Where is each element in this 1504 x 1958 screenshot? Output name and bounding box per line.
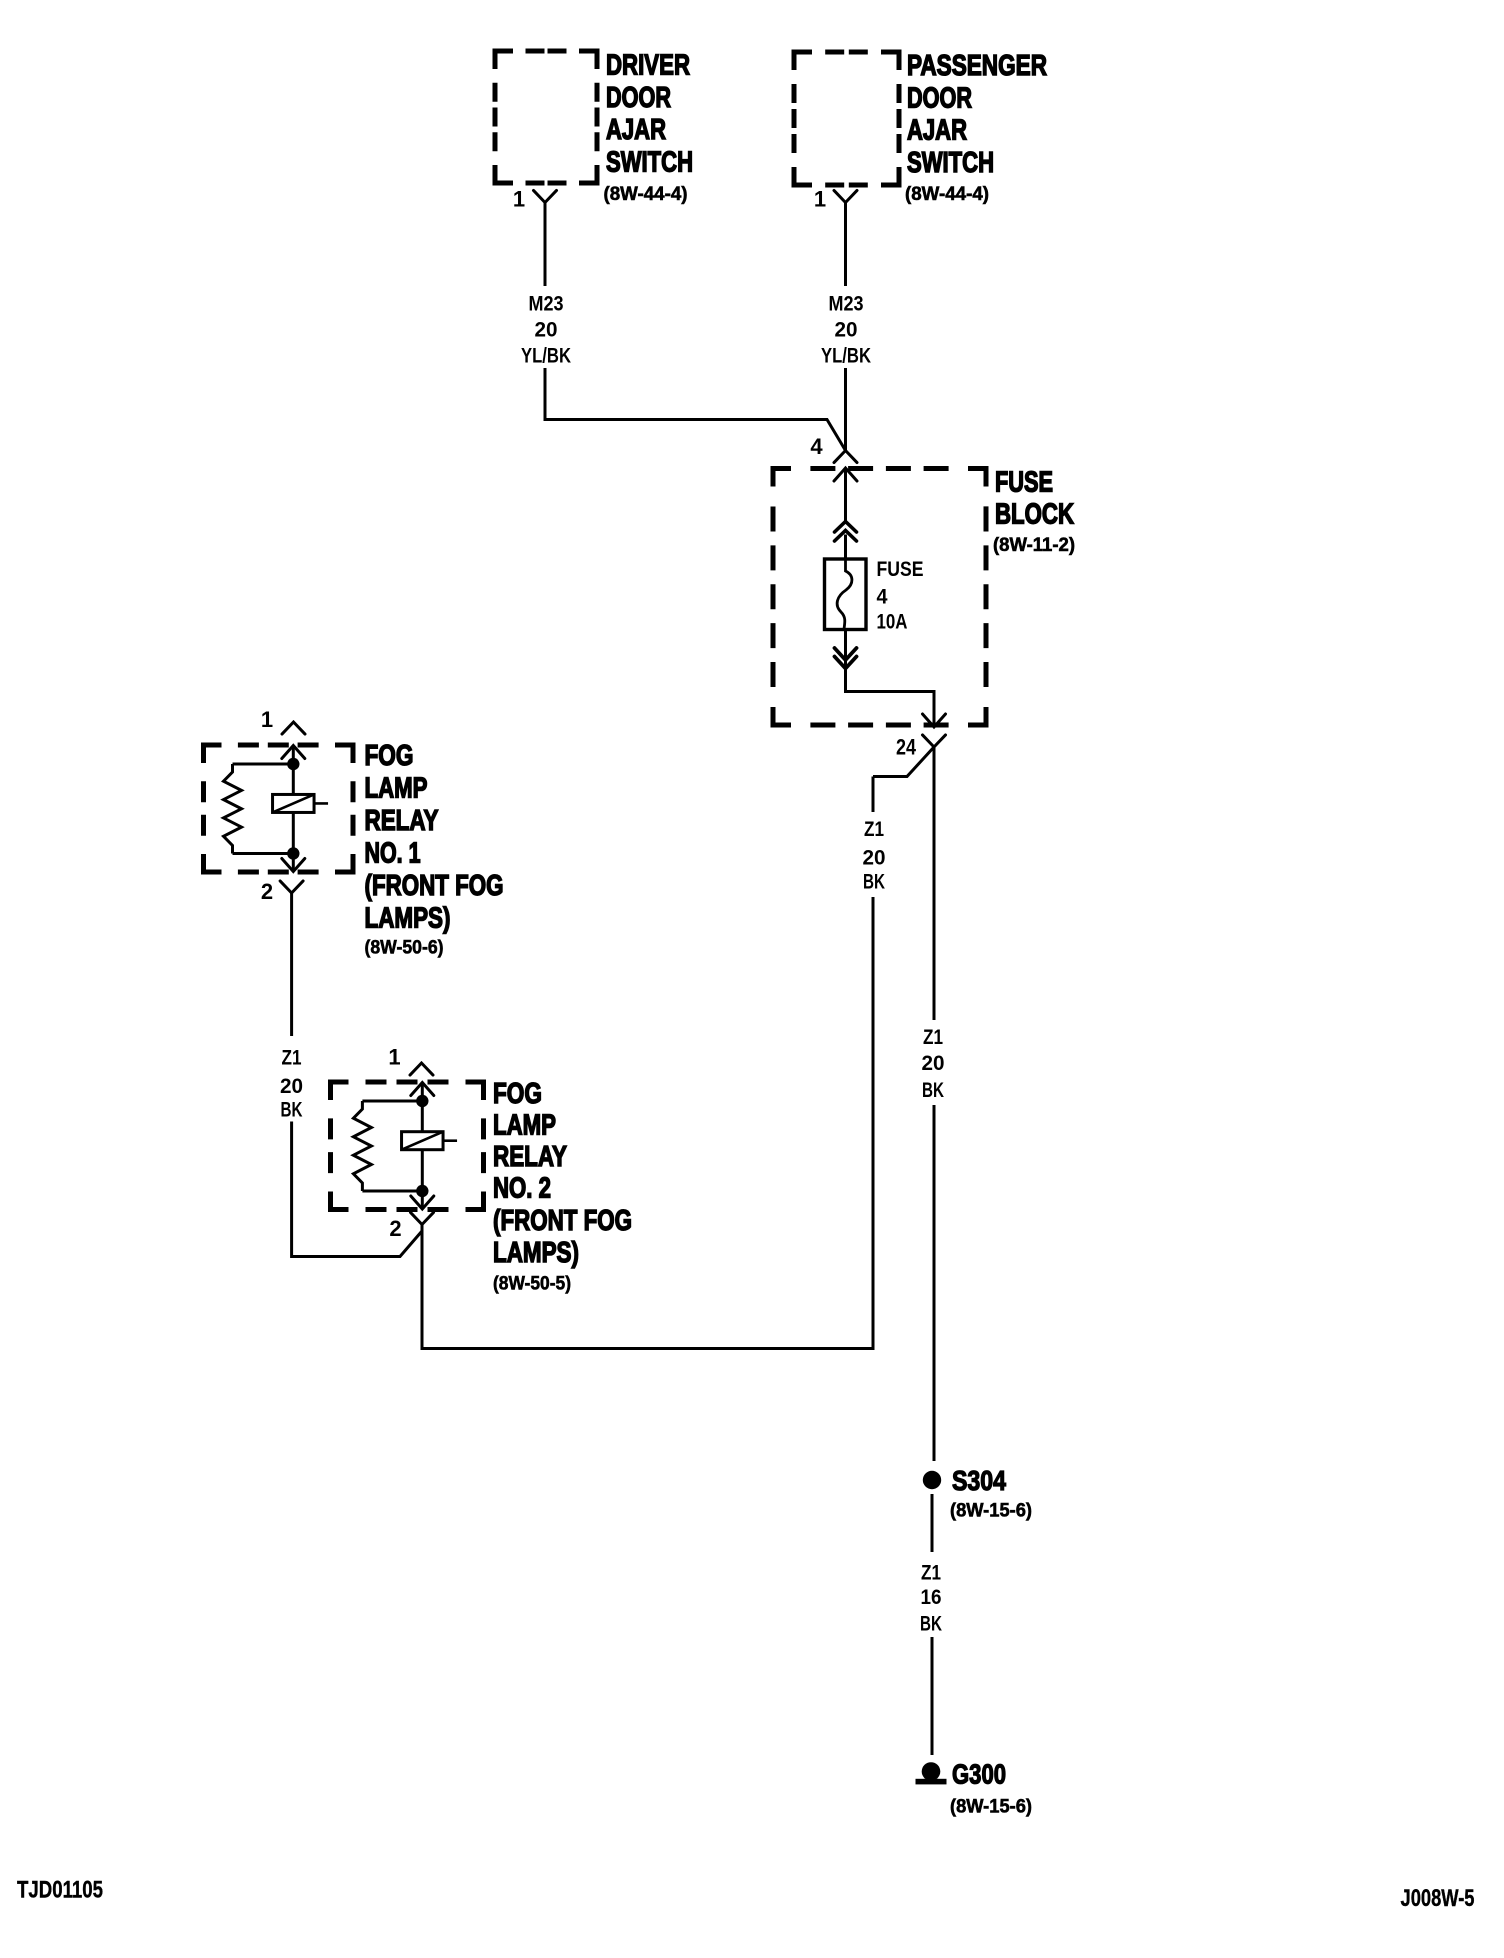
svg-text:(8W-50-5): (8W-50-5) xyxy=(493,1273,571,1295)
svg-text:Z1: Z1 xyxy=(921,1560,941,1584)
wire right branch upper segment xyxy=(933,747,936,1020)
footer drawing number TJD01105 xyxy=(17,1876,103,1903)
svg-text:20: 20 xyxy=(280,1074,303,1098)
relay 1 relay coil xyxy=(273,794,329,812)
relay 1 pin 2 label xyxy=(261,879,273,904)
svg-text:FUSE: FUSE xyxy=(877,557,924,581)
svg-text:16: 16 xyxy=(921,1585,942,1609)
svg-text:PASSENGER: PASSENGER xyxy=(907,50,1047,82)
svg-text:20: 20 xyxy=(535,317,558,341)
svg-text:TJD01105: TJD01105 xyxy=(17,1876,103,1903)
relay 2 pin 2 label xyxy=(389,1216,401,1241)
relay 1 junction dot (pin 2 side) xyxy=(287,847,299,859)
svg-text:Z1: Z1 xyxy=(282,1045,302,1069)
svg-text:(8W-15-6): (8W-15-6) xyxy=(950,1796,1032,1818)
svg-text:LAMPS): LAMPS) xyxy=(365,903,451,935)
relay 2 pin 2 connector xyxy=(411,1212,434,1231)
svg-text:FUSE: FUSE xyxy=(995,467,1053,499)
fuse block reference (8W-11-2) xyxy=(993,534,1075,556)
svg-text:NO. 1: NO. 1 xyxy=(365,838,421,870)
svg-text:(FRONT FOG: (FRONT FOG xyxy=(365,870,504,902)
svg-text:BLOCK: BLOCK xyxy=(995,499,1074,531)
fuse block output arrow at border xyxy=(923,714,946,727)
splice S304 label xyxy=(952,1465,1006,1496)
wire down to ground G300 xyxy=(931,1637,934,1755)
svg-text:M23: M23 xyxy=(829,291,864,315)
wire left branch down, across to relay 2 pin 2 xyxy=(422,897,873,1349)
wire label Z1 20 BK (relay 1 branch) xyxy=(280,1045,303,1121)
svg-text:(8W-44-4): (8W-44-4) xyxy=(604,183,688,205)
S304 reference (8W-15-6) xyxy=(950,1500,1032,1522)
relay 2 relay internal resistor xyxy=(353,1101,422,1191)
svg-text:2: 2 xyxy=(261,879,273,904)
wire below fuse to bottom of fuse block xyxy=(846,630,935,727)
fog lamp relay no.2 box xyxy=(331,1082,484,1210)
driver door ajar switch label xyxy=(606,50,693,179)
driver door ajar switch box xyxy=(495,51,597,183)
svg-text:(8W-50-6): (8W-50-6) xyxy=(365,937,444,959)
svg-text:LAMPS): LAMPS) xyxy=(493,1237,579,1269)
relay 2 pin 2 arrow out of relay xyxy=(411,1191,434,1210)
connector 4 female half xyxy=(834,451,857,463)
wire S304 down to label xyxy=(931,1494,934,1552)
relay 1 reference (8W-50-6) xyxy=(365,937,444,959)
ground G300 label xyxy=(952,1759,1006,1790)
svg-text:10A: 10A xyxy=(877,609,908,633)
relay 1 pin 2 arrow out of relay xyxy=(282,854,305,873)
passenger door ajar switch label xyxy=(907,50,1047,179)
relay 1 pin 1 label xyxy=(261,707,273,732)
svg-text:2: 2 xyxy=(389,1216,401,1241)
svg-text:S304: S304 xyxy=(952,1465,1006,1496)
wire passenger branch down to connector 4 xyxy=(844,368,847,451)
svg-text:24: 24 xyxy=(896,735,917,760)
fuse label FUSE 4 10A xyxy=(877,557,924,634)
svg-text:G300: G300 xyxy=(952,1759,1006,1790)
svg-text:BK: BK xyxy=(922,1078,944,1102)
passenger switch pin 1 label xyxy=(814,187,826,212)
svg-text:Z1: Z1 xyxy=(864,817,884,841)
wire relay 1 pin 2 down to label xyxy=(290,893,293,1036)
fog lamp relay no.1 box xyxy=(204,745,354,872)
passenger switch reference (8W-44-4) xyxy=(905,183,989,205)
connector 24 pin label xyxy=(896,735,917,760)
svg-text:RELAY: RELAY xyxy=(493,1141,567,1173)
driver switch pin 1 connector xyxy=(534,190,557,202)
svg-text:4: 4 xyxy=(877,584,888,608)
relay 2 reference (8W-50-5) xyxy=(493,1273,571,1295)
svg-text:AJAR: AJAR xyxy=(907,115,967,147)
relay 2 pin 1 arrow into relay xyxy=(411,1082,434,1101)
svg-text:J008W-5: J008W-5 xyxy=(1401,1885,1475,1912)
svg-text:1: 1 xyxy=(814,187,826,212)
svg-text:RELAY: RELAY xyxy=(365,805,439,837)
G300 reference (8W-15-6) xyxy=(950,1796,1032,1818)
fog lamp relay no.1 label xyxy=(365,740,504,935)
wire driver branch down and right to splice at connector 4 xyxy=(545,368,846,451)
svg-text:20: 20 xyxy=(835,317,858,341)
svg-text:(8W-15-6): (8W-15-6) xyxy=(950,1500,1032,1522)
svg-text:4: 4 xyxy=(810,434,823,459)
svg-text:SWITCH: SWITCH xyxy=(907,147,994,179)
connector 4 pin label xyxy=(810,434,823,459)
passenger door ajar switch box xyxy=(794,52,899,185)
svg-text:1: 1 xyxy=(513,187,525,212)
fog lamp relay no.2 label xyxy=(493,1078,632,1269)
wire label Z1 16 BK xyxy=(920,1560,942,1635)
wire label Z1 20 BK (right branch) xyxy=(922,1025,945,1102)
connector 4 male arrow into fuse block xyxy=(834,468,857,522)
driver switch pin 1 label xyxy=(513,187,525,212)
wire chevrons to fuse xyxy=(844,535,847,560)
wire right branch down to splice S304 xyxy=(933,1105,936,1461)
svg-text:FOG: FOG xyxy=(493,1078,542,1110)
relay 1 junction dot (pin 1 side) xyxy=(287,758,299,770)
relay 1 pin 2 connector xyxy=(280,881,303,893)
passenger switch pin 1 connector xyxy=(834,190,857,202)
wire label M23 20 YL/BK (passenger) xyxy=(821,291,871,367)
wire passenger switch pin 1 to label M23 xyxy=(844,203,847,287)
svg-text:(8W-44-4): (8W-44-4) xyxy=(905,183,989,205)
relay 2 relay coil xyxy=(402,1132,458,1150)
wire driver switch pin 1 to label M23 xyxy=(544,203,547,287)
relay 1 relay internal resistor xyxy=(224,764,294,854)
svg-text:BK: BK xyxy=(920,1611,942,1635)
footer sheet number J008W-5 xyxy=(1401,1885,1475,1912)
svg-text:1: 1 xyxy=(388,1045,400,1070)
svg-text:YL/BK: YL/BK xyxy=(821,343,871,367)
svg-text:SWITCH: SWITCH xyxy=(606,147,693,179)
svg-text:NO. 2: NO. 2 xyxy=(493,1173,551,1205)
chevron pair below fuse xyxy=(835,648,857,669)
relay 2 pin 1 label xyxy=(388,1045,400,1070)
svg-text:(8W-11-2): (8W-11-2) xyxy=(993,534,1075,556)
connector 24 female half xyxy=(923,735,946,747)
relay 2 junction dot (pin 1 side) xyxy=(416,1095,428,1107)
svg-text:DOOR: DOOR xyxy=(907,82,972,114)
relay 2 relay coil supply wire xyxy=(421,1101,424,1191)
svg-text:BK: BK xyxy=(863,869,885,893)
svg-text:1: 1 xyxy=(261,707,273,732)
svg-text:(FRONT FOG: (FRONT FOG xyxy=(493,1205,632,1237)
wire connector 24 splice diagonal to left branch xyxy=(873,747,934,777)
splice S304 dot xyxy=(923,1471,941,1489)
svg-text:FOG: FOG xyxy=(365,740,414,772)
svg-text:DRIVER: DRIVER xyxy=(606,50,690,82)
svg-text:20: 20 xyxy=(863,845,886,869)
svg-text:YL/BK: YL/BK xyxy=(521,343,571,367)
svg-text:M23: M23 xyxy=(529,291,564,315)
svg-text:LAMP: LAMP xyxy=(493,1110,556,1142)
relay 1 pin 1 arrow into relay xyxy=(282,745,305,764)
svg-text:DOOR: DOOR xyxy=(606,82,671,114)
relay 1 pin 1 connector xyxy=(282,722,305,734)
driver switch reference (8W-44-4) xyxy=(604,183,688,205)
fuse block box xyxy=(773,469,986,726)
fuse 4 10A element xyxy=(825,559,867,630)
wire left branch upper segment xyxy=(872,777,875,813)
svg-text:Z1: Z1 xyxy=(923,1025,943,1049)
svg-text:AJAR: AJAR xyxy=(606,114,666,146)
ground G300 symbol xyxy=(916,1762,947,1784)
wire label Z1 20 BK (left branch) xyxy=(863,817,886,894)
fuse block label xyxy=(995,467,1074,531)
relay 2 junction dot (pin 2 side) xyxy=(416,1185,428,1197)
wire relay 1 branch down and right to relay 2 pin 2 junction xyxy=(292,1122,422,1257)
svg-text:20: 20 xyxy=(922,1051,945,1075)
relay 2 pin 1 connector xyxy=(410,1063,433,1075)
relay 1 relay coil supply wire xyxy=(292,764,295,854)
chevron pair above fuse xyxy=(835,522,857,542)
svg-text:LAMP: LAMP xyxy=(365,773,428,805)
wire label M23 20 YL/BK (driver) xyxy=(521,291,571,367)
svg-text:BK: BK xyxy=(281,1097,303,1121)
